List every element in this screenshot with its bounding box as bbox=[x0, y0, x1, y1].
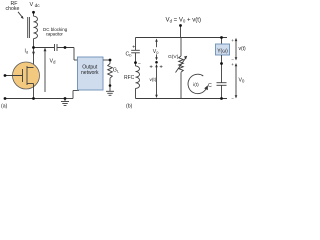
svg-text:choke: choke bbox=[6, 6, 20, 12]
svg-text:v(t): v(t) bbox=[150, 77, 157, 82]
svg-text:network: network bbox=[81, 70, 99, 76]
svg-text:G(V): G(V) bbox=[168, 54, 179, 60]
svg-text:V0: V0 bbox=[239, 78, 245, 84]
svg-text:(a): (a) bbox=[1, 104, 8, 110]
svg-text:Vd: Vd bbox=[50, 59, 57, 65]
svg-text:Vd = V0 + v(t): Vd = V0 + v(t) bbox=[166, 17, 202, 24]
svg-text:v(t): v(t) bbox=[239, 46, 247, 52]
svg-text:V0: V0 bbox=[153, 49, 159, 55]
svg-text:+: + bbox=[231, 38, 234, 43]
svg-text:capacitor: capacitor bbox=[46, 31, 64, 36]
svg-text:+: + bbox=[231, 62, 234, 67]
svg-text:Cb: Cb bbox=[126, 52, 133, 58]
svg-text:Id: Id bbox=[25, 49, 29, 55]
svg-text:i(t): i(t) bbox=[193, 82, 199, 88]
svg-text:+: + bbox=[132, 45, 135, 51]
svg-text:GL: GL bbox=[113, 68, 120, 74]
svg-text:−: − bbox=[138, 61, 141, 67]
svg-text:C: C bbox=[208, 83, 212, 89]
svg-text:RFC: RFC bbox=[124, 75, 135, 81]
svg-text:V dc: V dc bbox=[30, 2, 41, 9]
svg-text:(b): (b) bbox=[126, 104, 133, 110]
svg-text:Y(ω): Y(ω) bbox=[217, 48, 228, 54]
svg-text:−: − bbox=[231, 96, 234, 101]
